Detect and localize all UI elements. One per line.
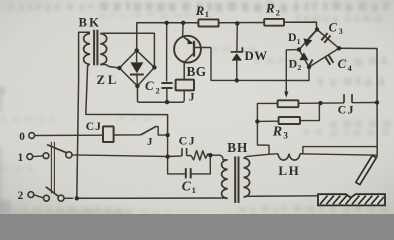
svg-text:3: 3 [339, 27, 343, 36]
svg-text:CJ: CJ [338, 103, 355, 117]
svg-text:J: J [189, 92, 195, 104]
svg-text:2: 2 [156, 86, 160, 96]
svg-text:C: C [145, 78, 154, 93]
svg-text:2: 2 [276, 8, 280, 17]
svg-text:1: 1 [297, 37, 301, 46]
svg-text:1: 1 [18, 152, 24, 164]
svg-text:DW: DW [245, 49, 268, 63]
svg-text:D: D [288, 30, 297, 44]
svg-text:C: C [338, 57, 347, 71]
svg-text:1: 1 [205, 10, 209, 19]
svg-text:C: C [329, 21, 338, 35]
svg-text:BK: BK [79, 16, 102, 30]
svg-text:BH: BH [227, 140, 248, 155]
svg-text:BG: BG [187, 64, 207, 79]
svg-text:LH: LH [278, 163, 300, 178]
svg-text:1: 1 [192, 185, 196, 195]
svg-text:0: 0 [19, 131, 25, 143]
svg-text:CJ: CJ [179, 133, 196, 147]
svg-text:CJ: CJ [86, 120, 102, 133]
svg-text:2: 2 [18, 190, 24, 202]
svg-text:C: C [182, 178, 192, 193]
svg-text:R: R [195, 4, 205, 18]
svg-text:ZL: ZL [97, 73, 120, 87]
svg-text:R: R [265, 2, 275, 16]
svg-text:3: 3 [283, 131, 288, 141]
svg-text:D: D [289, 57, 298, 71]
svg-text:J: J [147, 136, 153, 148]
svg-text:2: 2 [297, 63, 301, 72]
svg-text:R: R [272, 125, 282, 140]
svg-text:4: 4 [348, 64, 352, 73]
